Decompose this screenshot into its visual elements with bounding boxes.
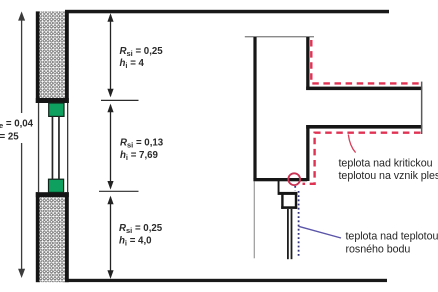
wall upper right border — [65, 11, 69, 103]
floor line — [62, 279, 387, 282]
outer dimension arrow down — [18, 269, 25, 278]
window frame box left edge — [281, 194, 283, 209]
window reveal line right — [67, 103, 68, 192]
outer dimension arrow up — [18, 11, 25, 20]
red circle marker — [288, 173, 300, 185]
window head step vertical — [278, 181, 280, 192]
svg-text:teplota nad kritickou: teplota nad kritickou — [339, 158, 433, 170]
dimension segment 3 line — [110, 198, 112, 277]
svg-text:teplotou na vznik plesní: teplotou na vznik plesní — [339, 170, 438, 182]
wall upper left border — [36, 11, 40, 103]
window frame green top — [49, 103, 64, 116]
dimension segment 2 arrow up — [107, 104, 113, 113]
svg-text:hi = 4,0: hi = 4,0 — [119, 236, 152, 248]
red dashed isotherm upper — [311, 40, 421, 83]
glazing pane line left — [52, 116, 54, 179]
dimension segment 2 line — [110, 106, 112, 188]
svg-text:Rsi = 0,25: Rsi = 0,25 — [120, 46, 164, 58]
dimension segment 3 arrow up — [107, 196, 113, 205]
dimension segment 3 arrow down — [107, 270, 113, 279]
glazing pane line right — [58, 116, 60, 179]
svg-text:= 25: = 25 — [0, 132, 19, 143]
blue leader line — [299, 226, 342, 238]
svg-text:hi = 7,69: hi = 7,69 — [120, 150, 159, 162]
right wall right face upper — [306, 37, 309, 90]
blue dotted line short upper — [294, 186, 296, 191]
dimension segment 1 line — [110, 15, 112, 96]
svg-text:teplota nad teplotou: teplota nad teplotou — [346, 231, 438, 243]
wall upper section hatch — [39, 11, 65, 98]
wall lower top cap — [36, 192, 69, 197]
wall lower section hatch — [39, 197, 65, 282]
slab bottom line — [306, 125, 422, 129]
outer dimension line — [21, 16, 23, 274]
svg-text:e = 0,04: e = 0,04 — [0, 119, 34, 131]
slab end cut line — [421, 82, 423, 134]
wall lower left border — [36, 192, 40, 282]
slab top line — [306, 87, 422, 91]
blue dotted line main — [298, 191, 300, 258]
svg-text:hi = 4: hi = 4 — [120, 58, 145, 70]
white patch behind exterior labels — [0, 113, 36, 143]
window reveal line left — [38, 103, 39, 192]
right glazing line right — [291, 209, 293, 259]
tick line 2 — [99, 190, 139, 192]
right glazing line left — [287, 209, 289, 259]
tick line 1 — [101, 99, 139, 101]
wall upper bottom cap — [36, 98, 69, 103]
right wall left face — [253, 37, 256, 179]
right wall right face lower — [306, 125, 309, 181]
svg-text:rosného bodu: rosného bodu — [346, 244, 411, 256]
right detail: top cut line — [245, 36, 314, 37]
dimension segment 1 arrow up — [107, 13, 113, 22]
window frame box right edge — [295, 194, 297, 209]
svg-text:Rsi = 0,25: Rsi = 0,25 — [119, 223, 163, 235]
dimension segment 2 arrow down — [107, 181, 113, 190]
dimension segment 1 arrow down — [107, 89, 113, 98]
wall lower right border — [65, 192, 69, 282]
right wall left face continuation (grey) — [254, 181, 255, 258]
window frame green bottom — [49, 179, 64, 192]
red leader line — [348, 135, 355, 153]
svg-text:Rsi = 0,13: Rsi = 0,13 — [120, 138, 164, 150]
window frame top bar — [278, 192, 298, 195]
right wall bottom line — [253, 178, 307, 181]
red dashed isotherm lower — [303, 133, 421, 184]
ceiling line — [65, 10, 389, 14]
window frame box bottom edge — [281, 206, 297, 209]
